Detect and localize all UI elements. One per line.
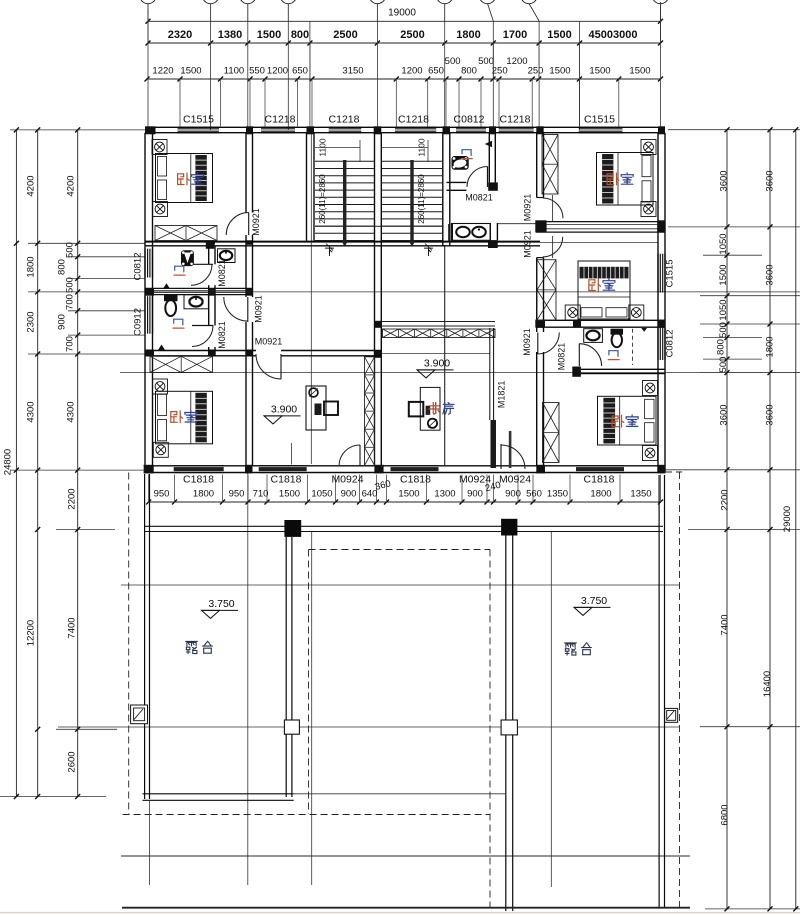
svg-text:1800: 1800 <box>26 256 37 277</box>
svg-text:M0921: M0921 <box>251 208 261 236</box>
balustrade left mid <box>150 356 213 372</box>
svg-text:3150: 3150 <box>342 66 363 77</box>
svg-text:M0821: M0821 <box>556 343 566 371</box>
svg-text:M0921: M0921 <box>253 295 263 323</box>
svg-text:C1515: C1515 <box>665 260 676 288</box>
svg-text:1050: 1050 <box>718 233 729 254</box>
svg-text:1800: 1800 <box>193 489 214 500</box>
svg-text:C1515: C1515 <box>584 113 615 125</box>
bed bottom left <box>153 379 213 457</box>
svg-text:C0812: C0812 <box>133 253 144 281</box>
svg-text:1200: 1200 <box>506 56 527 67</box>
svg-text:M0821: M0821 <box>217 259 227 287</box>
dim row 19000 <box>146 2 664 43</box>
door M0921 room1 <box>226 208 261 236</box>
terrace south thin line <box>149 794 506 885</box>
wall x493 stub <box>488 223 536 248</box>
svg-text:M0921: M0921 <box>522 194 532 222</box>
terrace column white right <box>501 720 517 735</box>
door M0921 hall label <box>255 336 283 346</box>
bath right fixtures <box>584 329 633 365</box>
svg-text:C1818: C1818 <box>400 473 431 485</box>
door M1821 sliding <box>491 381 512 468</box>
svg-text:1100: 1100 <box>224 66 244 77</box>
shower tri2 <box>158 345 165 351</box>
svg-text:3.900: 3.900 <box>271 403 297 415</box>
svg-text:1380: 1380 <box>218 29 242 41</box>
svg-text:C1818: C1818 <box>183 473 214 485</box>
svg-text:4200: 4200 <box>66 175 77 196</box>
svg-text:M1821: M1821 <box>496 381 506 409</box>
window labels top <box>183 113 615 125</box>
svg-text:560: 560 <box>526 489 542 500</box>
dashed roof outline middle <box>309 550 491 909</box>
svg-text:700: 700 <box>65 336 76 352</box>
svg-text:1800: 1800 <box>590 489 611 500</box>
svg-text:C1218: C1218 <box>329 113 360 125</box>
top wall columns <box>145 126 665 134</box>
bath south wall <box>447 182 498 190</box>
svg-text:1500: 1500 <box>549 66 570 77</box>
bed mid right <box>565 261 644 320</box>
vanity top right <box>452 224 491 241</box>
balustrade center <box>381 322 495 338</box>
dashed roof outline left <box>123 473 490 815</box>
wall y292 left <box>145 288 253 296</box>
terrace column black right <box>501 519 517 536</box>
right exterior wall <box>658 133 665 473</box>
terrace left east wall <box>286 537 292 797</box>
svg-text:1500: 1500 <box>180 66 201 77</box>
horizontal grid lines <box>58 243 800 857</box>
axis bubbles <box>140 0 669 4</box>
bottom exterior wall <box>144 466 666 473</box>
door stop mark <box>641 328 647 332</box>
svg-text:1100: 1100 <box>416 138 426 157</box>
svg-text:800: 800 <box>291 29 309 41</box>
door flag <box>485 141 492 148</box>
svg-text:C1218: C1218 <box>265 113 296 125</box>
svg-text:650: 650 <box>428 66 444 77</box>
down labels <box>325 244 432 256</box>
svg-text:M0921: M0921 <box>255 336 283 346</box>
svg-text:1300: 1300 <box>434 489 455 500</box>
svg-text:2200: 2200 <box>67 488 78 509</box>
wall x490 study east <box>490 328 494 420</box>
svg-text:1700: 1700 <box>503 29 527 41</box>
balustrade left top <box>155 226 217 241</box>
svg-text:2300: 2300 <box>26 311 37 332</box>
door M0924 bottom left <box>339 445 360 466</box>
photo edge line <box>0 912 800 914</box>
svg-text:19000: 19000 <box>388 8 416 19</box>
terrace left west wall <box>145 474 150 799</box>
study label <box>429 403 454 415</box>
terrace label right <box>565 643 592 655</box>
svg-text:3600: 3600 <box>764 404 775 425</box>
svg-text:7400: 7400 <box>67 617 78 638</box>
drain box right <box>665 708 678 722</box>
terrace right west wall <box>506 536 513 912</box>
svg-text:M0924: M0924 <box>499 473 531 485</box>
interior wall x377 <box>375 133 382 466</box>
svg-text:500: 500 <box>65 277 76 293</box>
svg-text:24800: 24800 <box>3 449 14 475</box>
svg-text:16400: 16400 <box>762 671 773 697</box>
top wall windows <box>178 127 623 132</box>
terrace column black left <box>284 520 301 537</box>
svg-text:2320: 2320 <box>168 29 192 41</box>
door M0821 wc1 <box>191 259 227 287</box>
bottom border line <box>122 907 690 909</box>
svg-text:29000: 29000 <box>782 506 793 532</box>
svg-text:2600: 2600 <box>67 751 78 772</box>
terrace right east wall <box>659 475 664 908</box>
drain box left <box>131 705 148 724</box>
elevation 3.750 right <box>574 595 611 616</box>
svg-text:6800: 6800 <box>720 804 731 825</box>
svg-text:1350: 1350 <box>547 489 568 500</box>
wall y354 left <box>145 350 382 357</box>
svg-text:1800: 1800 <box>764 336 775 357</box>
left dim rows <box>0 127 145 799</box>
interior wall x248 <box>246 133 253 466</box>
svg-text:2500: 2500 <box>333 29 357 41</box>
bed bottom right <box>598 381 658 461</box>
top exterior wall <box>145 127 664 132</box>
svg-text:950: 950 <box>229 489 245 500</box>
bedroom label bottom right <box>612 415 638 427</box>
svg-text:900: 900 <box>505 489 521 500</box>
terrace left south wall <box>143 794 294 801</box>
svg-text:1500: 1500 <box>279 489 300 500</box>
door M0921 hall west <box>224 295 264 323</box>
svg-text:1350: 1350 <box>630 489 651 500</box>
elevation 3.900 hall <box>417 357 454 378</box>
shower tri1 <box>163 283 170 289</box>
svg-text:3600: 3600 <box>719 170 730 191</box>
svg-text:950: 950 <box>154 489 170 500</box>
stair landing wall <box>315 225 443 227</box>
svg-text:500: 500 <box>445 56 461 67</box>
interior wall x310 stair west <box>307 133 315 242</box>
left dim texts <box>3 175 78 772</box>
door M0921 hall south <box>256 354 281 379</box>
bottom wall labels <box>183 473 615 485</box>
elevation 3.900 west <box>264 403 301 424</box>
right dim rows <box>665 127 800 911</box>
svg-text:260(11)=2860: 260(11)=2860 <box>318 174 327 224</box>
svg-text:800: 800 <box>57 259 68 275</box>
svg-text:C1218: C1218 <box>500 113 531 125</box>
svg-text:800: 800 <box>461 66 477 77</box>
svg-text:4300: 4300 <box>66 401 77 422</box>
wall y324 right <box>535 320 665 328</box>
stair 2 <box>382 138 443 247</box>
bottom dim chain <box>146 475 663 505</box>
svg-text:C1818: C1818 <box>584 473 615 485</box>
svg-text:3.750: 3.750 <box>208 598 234 610</box>
svg-text:700: 700 <box>65 294 76 310</box>
svg-text:1220: 1220 <box>152 66 173 77</box>
left wall window labels <box>133 253 144 337</box>
dim row main <box>146 29 664 45</box>
svg-text:550: 550 <box>249 66 265 77</box>
elevation 3.750 left <box>202 598 239 619</box>
svg-text:3600: 3600 <box>719 404 730 425</box>
shaft top right <box>542 135 558 195</box>
bottom wall columns <box>144 465 665 474</box>
bed top right <box>597 140 657 217</box>
svg-text:250: 250 <box>492 66 508 77</box>
bedroom label top left <box>178 173 204 185</box>
svg-text:1200: 1200 <box>267 66 288 77</box>
dim row fine <box>145 43 664 82</box>
svg-text:710: 710 <box>253 489 269 500</box>
svg-text:1500: 1500 <box>629 66 650 77</box>
left exterior wall <box>145 133 153 473</box>
bath stub wall <box>449 224 453 241</box>
bedroom label top right <box>607 173 633 185</box>
svg-text:M0924: M0924 <box>331 473 363 485</box>
bath top fixtures <box>452 150 473 170</box>
svg-text:12200: 12200 <box>26 620 37 646</box>
svg-text:1050: 1050 <box>311 489 332 500</box>
right dim chain lines <box>727 130 796 909</box>
svg-text:2500: 2500 <box>400 29 424 41</box>
shaft tall center <box>365 357 375 466</box>
svg-text:M0821: M0821 <box>465 192 493 202</box>
door M0924 bottom right <box>501 444 525 469</box>
svg-text:250: 250 <box>528 66 544 77</box>
terrace beam <box>145 526 663 531</box>
svg-text:7400: 7400 <box>720 614 731 635</box>
door M0821 bath top <box>465 167 493 203</box>
svg-text:260(11)=2860: 260(11)=2860 <box>417 174 426 224</box>
svg-text:1200: 1200 <box>401 66 422 77</box>
terrace label left <box>186 641 213 653</box>
svg-text:3600: 3600 <box>764 264 775 285</box>
door M0921 bedroom tr <box>522 194 563 222</box>
svg-text:3.750: 3.750 <box>581 595 607 607</box>
svg-text:C1218: C1218 <box>398 113 429 125</box>
interior wall x445 <box>443 133 450 246</box>
svg-text:4200: 4200 <box>26 175 37 196</box>
svg-text:900: 900 <box>341 489 357 500</box>
svg-text:1500: 1500 <box>398 489 419 500</box>
bedroom label bottom left <box>171 411 197 423</box>
svg-text:C1515: C1515 <box>183 113 214 125</box>
leader line <box>291 443 293 465</box>
interior wall x493 <box>489 133 495 183</box>
svg-text:1500: 1500 <box>589 66 610 77</box>
wc basin <box>218 249 236 263</box>
window extension lines <box>180 79 619 127</box>
wall y243 left <box>145 240 540 249</box>
svg-text:1500: 1500 <box>547 29 571 41</box>
interior wall x211 <box>209 241 215 357</box>
bedroom label mid right <box>589 279 615 291</box>
dashed roof outline right <box>665 472 682 908</box>
door M0821 bath right <box>556 343 601 371</box>
shaft mid right <box>537 260 556 320</box>
right dim texts <box>716 170 794 825</box>
interior wall x539 <box>537 133 544 466</box>
svg-text:900: 900 <box>467 489 483 500</box>
bath1 fixtures <box>174 250 194 275</box>
axis leader lines <box>148 4 661 22</box>
svg-text:M0921: M0921 <box>522 230 532 258</box>
bath2 fixtures <box>164 295 208 328</box>
bed top left <box>152 140 213 217</box>
svg-text:C0912: C0912 <box>133 308 144 336</box>
svg-text:900: 900 <box>57 314 68 330</box>
svg-text:C1818: C1818 <box>271 473 302 485</box>
desk second <box>306 386 338 430</box>
door M0821 wc2 <box>192 321 227 349</box>
svg-text:4300: 4300 <box>26 401 37 422</box>
left dim chain lines <box>16 130 77 797</box>
svg-text:3600: 3600 <box>764 170 775 191</box>
svg-text:500: 500 <box>65 242 76 258</box>
door M0921 bedroom mr <box>522 230 562 258</box>
svg-text:1050: 1050 <box>718 299 729 320</box>
svg-text:M0921: M0921 <box>522 328 532 356</box>
svg-text:1800: 1800 <box>456 29 480 41</box>
svg-text:45003000: 45003000 <box>589 29 638 41</box>
axis grid lines <box>148 22 661 888</box>
svg-text:M0924: M0924 <box>459 473 491 485</box>
wall y368 right <box>572 367 665 377</box>
study desk <box>409 387 440 430</box>
svg-text:500: 500 <box>718 357 729 373</box>
stair 1 <box>315 138 374 247</box>
svg-text:1500: 1500 <box>718 264 729 285</box>
svg-text:C0812: C0812 <box>665 330 676 358</box>
svg-text:3.900: 3.900 <box>424 357 450 369</box>
svg-text:1500: 1500 <box>257 29 281 41</box>
terrace column white left <box>284 720 299 734</box>
svg-text:2200: 2200 <box>720 489 731 510</box>
svg-text:500: 500 <box>718 322 729 338</box>
svg-text:M0821: M0821 <box>217 321 227 349</box>
svg-text:1100: 1100 <box>317 138 327 157</box>
svg-text:650: 650 <box>292 66 308 77</box>
door M0921 hall east <box>522 328 559 356</box>
svg-text:C0812: C0812 <box>454 113 485 125</box>
right wall window labels <box>665 260 676 358</box>
shaft bottom right <box>543 403 560 463</box>
svg-text:800: 800 <box>716 339 727 355</box>
wall y226 right <box>535 220 665 232</box>
